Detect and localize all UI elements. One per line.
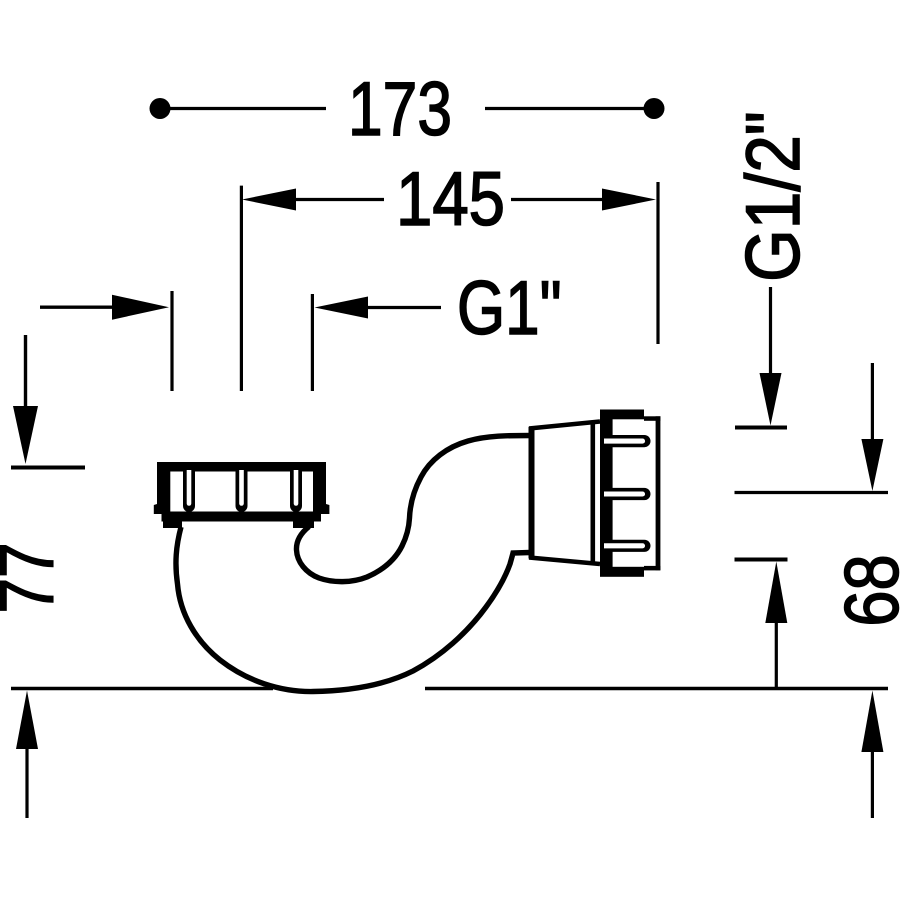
baseline right up arrow — [861, 691, 883, 753]
tick at nut top level — [11, 466, 85, 470]
svg-text:145: 145 — [396, 157, 505, 242]
dimension 173 right line — [485, 107, 644, 110]
tick at 68 top level — [735, 558, 788, 562]
dimension 173 right dot — [644, 98, 665, 119]
outlet axis down arrow — [861, 439, 883, 491]
left nut body — [154, 462, 330, 528]
outlet axis line — [735, 491, 889, 494]
right nut slot 3 — [604, 540, 651, 552]
right nut bottom cap — [600, 567, 644, 577]
cone top edge — [529, 422, 600, 429]
dimension 145 left arrow — [242, 189, 296, 211]
outlet axis leader line — [871, 363, 874, 440]
G1 leader vertical line — [24, 335, 27, 408]
G1 leader horizontal line — [40, 306, 114, 309]
G1/2 down arrow — [760, 373, 782, 426]
svg-text:G1/2": G1/2" — [731, 111, 816, 282]
dimension 145 right arrow — [602, 189, 656, 211]
cone left edge — [529, 427, 535, 559]
dimension 145 left line — [294, 198, 384, 201]
dimension G1 line — [366, 306, 441, 309]
svg-text:68: 68 — [829, 554, 900, 626]
G1/2 leader line — [769, 287, 772, 374]
right nut top cap — [600, 410, 644, 420]
baseline left arrow stem — [25, 747, 28, 818]
svg-text:77: 77 — [0, 542, 69, 613]
dimension 68 up arrow — [765, 562, 787, 624]
extension line left of 145 — [240, 186, 243, 391]
G1 extension line right — [311, 294, 314, 391]
G1 leader down arrow — [13, 406, 38, 464]
left nut slot 1 — [183, 470, 195, 512]
right nut slot 1 — [604, 435, 651, 447]
cone divider line — [590, 424, 595, 562]
floor baseline right segment — [425, 687, 888, 690]
dimension 68 line — [775, 621, 778, 688]
left nut slot 3 — [290, 470, 302, 512]
cone bottom edge — [529, 558, 600, 565]
svg-text:G1": G1" — [457, 265, 562, 351]
trap outer curve — [176, 527, 530, 692]
dimension 173 left dot — [150, 98, 171, 119]
left nut interior — [170, 472, 313, 512]
dimension G1 arrow — [315, 297, 369, 319]
baseline left up arrow — [16, 691, 38, 750]
G1 extension line left — [170, 291, 173, 391]
tick at right nut top level — [735, 426, 787, 430]
baseline right arrow stem — [871, 750, 874, 818]
dimension 173 left line — [170, 107, 326, 110]
svg-text:173: 173 — [348, 66, 452, 151]
trap inner curve — [296, 436, 531, 582]
dimension 145 right line — [511, 198, 605, 201]
right nut left band — [600, 410, 613, 577]
right nut right wall — [656, 416, 661, 570]
G1 leader right arrow — [112, 295, 169, 320]
right nut slot 2 — [604, 488, 651, 500]
extension line right of 145 — [656, 182, 659, 344]
left nut slot 2 — [236, 470, 248, 512]
floor baseline left segment — [11, 687, 273, 690]
